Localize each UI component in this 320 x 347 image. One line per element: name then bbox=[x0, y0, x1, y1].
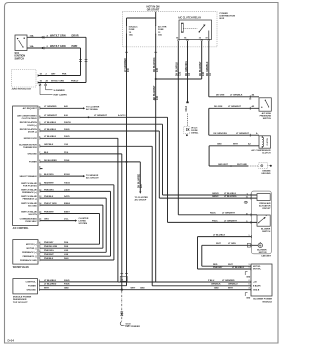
connector C113 on clutch feed bbox=[186, 102, 188, 104]
blower motor M1 bbox=[258, 242, 262, 247]
wire r7 ground bbox=[40, 154, 122, 290]
svg-text:1: 1 bbox=[249, 267, 250, 269]
svg-text:P BLU: P BLU bbox=[208, 280, 215, 282]
svg-text:LT GRN/RED: LT GRN/RED bbox=[125, 58, 127, 72]
connector on wire A bbox=[42, 36, 44, 39]
svg-text:WHT/LT GRN: WHT/LT GRN bbox=[51, 80, 64, 82]
recirc switch contacts bbox=[258, 215, 268, 223]
svg-text:SIG RTN: SIG RTN bbox=[28, 214, 37, 216]
svg-text:10A: 10A bbox=[158, 33, 162, 36]
svg-text:SWITCH VALUE: SWITCH VALUE bbox=[21, 195, 37, 198]
svg-text:5: 5 bbox=[249, 284, 250, 286]
svg-text:DK BLU/RED: DK BLU/RED bbox=[139, 173, 141, 188]
pressure switch PS1 contacts bbox=[261, 100, 269, 108]
svg-text:S-DIMMER: S-DIMMER bbox=[54, 90, 65, 92]
diode detail terminal dot bbox=[186, 134, 188, 136]
connector note C3 bbox=[244, 201, 247, 204]
svg-text:LT GRN/WHT: LT GRN/WHT bbox=[236, 133, 250, 135]
C1 pin tick bbox=[249, 235, 252, 238]
blower feed row 3 bbox=[27, 288, 70, 292]
wire label relay pin85 bbox=[186, 61, 191, 76]
svg-text:30: 30 bbox=[199, 38, 201, 40]
svg-text:CONTROL: CONTROL bbox=[26, 282, 37, 284]
svg-text:DRVR: DRVR bbox=[72, 34, 79, 37]
diode D1 symbol bbox=[186, 128, 188, 131]
svg-text:6: 6 bbox=[247, 193, 248, 195]
svg-text:RECIRCULATION: RECIRCULATION bbox=[20, 121, 38, 124]
svg-text:FEEDBACK (-): FEEDBACK (-) bbox=[23, 198, 38, 201]
control module pin row r3 label bbox=[20, 121, 72, 127]
svg-text:PNK/ORG: PNK/ORG bbox=[44, 250, 54, 252]
wire r12 loop to water valve bbox=[40, 191, 111, 256]
wire D to junction block bbox=[38, 81, 86, 84]
wire D labels bbox=[40, 80, 80, 82]
svg-text:CLUTCH: CLUTCH bbox=[262, 153, 271, 155]
wire r3 recirc+ bbox=[40, 124, 257, 195]
wire label relay pin86 bbox=[177, 62, 182, 76]
switch S1 contacts bbox=[17, 38, 25, 48]
svg-text:PNK/GRY: PNK/GRY bbox=[44, 242, 54, 244]
connector C113 label bbox=[186, 105, 188, 111]
svg-text:RED: RED bbox=[213, 264, 218, 266]
svg-text:POWER: POWER bbox=[28, 286, 36, 288]
svg-text:GROUND: GROUND bbox=[28, 154, 38, 156]
C1 wire stub into cab bbox=[0, 0, 1, 1]
recirc switch label bbox=[261, 229, 271, 234]
svg-text:B13/4: B13/4 bbox=[64, 173, 70, 176]
compressor clutch label bbox=[251, 149, 271, 155]
svg-text:THERMISTOR: THERMISTOR bbox=[23, 147, 37, 149]
svg-text:WHT: WHT bbox=[233, 144, 238, 146]
wire B vertical drop bbox=[80, 48, 82, 76]
svg-text:GND WHT: GND WHT bbox=[218, 164, 229, 166]
C1 top label bbox=[213, 235, 226, 237]
svg-text:OR START: OR START bbox=[147, 9, 160, 12]
svg-text:PWR: PWR bbox=[72, 45, 78, 48]
compressor clutch coil bbox=[262, 136, 264, 147]
svg-text:85: 85 bbox=[184, 38, 186, 40]
A/C control module label bbox=[13, 227, 30, 230]
wire r5 mode door bbox=[40, 138, 251, 282]
svg-text:GND: GND bbox=[217, 144, 222, 146]
A/C control module box bbox=[13, 106, 38, 226]
svg-text:A/C CONTROL: A/C CONTROL bbox=[13, 227, 30, 230]
svg-text:DK GRN: DK GRN bbox=[216, 95, 225, 97]
svg-text:MOTOR+: MOTOR+ bbox=[253, 269, 262, 271]
svg-text:MODE DOOR: MODE DOOR bbox=[24, 138, 38, 140]
svg-text:SWITCH: SWITCH bbox=[262, 231, 271, 233]
svg-text:SWITCH VALUE: SWITCH VALUE bbox=[21, 211, 37, 214]
svg-text:FEEDBACK GND: FEEDBACK GND bbox=[20, 259, 37, 262]
wire label F2 drop lower bbox=[154, 85, 159, 100]
svg-text:R0/2C: R0/2C bbox=[210, 213, 216, 215]
svg-text:2: 2 bbox=[249, 280, 250, 282]
connector tick compressor feed bbox=[249, 134, 251, 137]
svg-text:FUSE SELF: FUSE SELF bbox=[25, 221, 37, 223]
svg-text:LT GRN/RED: LT GRN/RED bbox=[222, 280, 235, 282]
control module pin row r13 label bbox=[21, 195, 70, 201]
blower feed connector box bbox=[13, 279, 38, 294]
wire r15 loop to water valve bbox=[40, 214, 100, 245]
svg-text:C21: C21 bbox=[180, 71, 182, 76]
svg-text:SWITCH: SWITCH bbox=[263, 118, 272, 120]
svg-text:CLUTCH: CLUTCH bbox=[267, 137, 269, 145]
wire B color label bbox=[47, 45, 66, 48]
svg-text:10A: 10A bbox=[30, 34, 34, 37]
control module pin row r14 label bbox=[21, 202, 70, 208]
wire relay pin30 drop bbox=[156, 41, 202, 79]
feed bus inside PDB bbox=[127, 12, 156, 26]
svg-text:GROUND: GROUND bbox=[261, 173, 271, 175]
grommet symbol on ground drop bbox=[120, 312, 123, 316]
svg-text:C113: C113 bbox=[186, 105, 188, 111]
svg-text:ORN/BLU: ORN/BLU bbox=[228, 284, 238, 286]
svg-text:DK GRN: DK GRN bbox=[214, 106, 223, 108]
engine ground eyelet bbox=[261, 165, 263, 167]
r8 destination note bbox=[135, 197, 149, 202]
svg-text:AIR CONDITIONING: AIR CONDITIONING bbox=[17, 114, 37, 117]
svg-text:PNK/WHT: PNK/WHT bbox=[44, 254, 54, 256]
connector box on ground verticals bbox=[120, 276, 127, 281]
splice node on F2 drop bbox=[155, 78, 157, 80]
switch wire labels bbox=[210, 213, 248, 223]
r10 destination note bbox=[86, 175, 99, 180]
blower power module label bbox=[253, 299, 272, 304]
actuator wire labels bbox=[212, 193, 237, 198]
wire C labels bbox=[40, 73, 67, 75]
svg-text:LT GRN/WHT: LT GRN/WHT bbox=[222, 213, 236, 215]
blower motor wire bbox=[0, 0, 1, 1]
svg-text:A/C SIGNAL: A/C SIGNAL bbox=[86, 108, 99, 111]
module pin numbers bbox=[249, 264, 250, 290]
svg-text:LT BLU/BLK: LT BLU/BLK bbox=[224, 193, 237, 195]
connector marks on verticals bbox=[79, 59, 87, 61]
connector tick on F2 drop bbox=[154, 51, 157, 53]
svg-text:A/C COMPRESSOR: A/C COMPRESSOR bbox=[251, 149, 271, 152]
wire loop C2 blower motor feed bbox=[202, 245, 258, 266]
module gnd stub upper bbox=[245, 272, 251, 279]
control module pin row r11 label bbox=[21, 182, 70, 188]
svg-text:4: 4 bbox=[249, 287, 250, 290]
dashed clutch feed segment bbox=[187, 114, 189, 127]
svg-text:DK BLU/WHT: DK BLU/WHT bbox=[200, 61, 202, 76]
svg-text:A/C CIRCUIT: A/C CIRCUIT bbox=[86, 177, 99, 180]
connector tick return wire bbox=[249, 107, 251, 110]
leader to splice S1 label bbox=[46, 86, 65, 92]
water valve label bbox=[13, 266, 30, 269]
svg-text:10A: 10A bbox=[30, 45, 34, 48]
compressor clutch L1 box bbox=[259, 136, 271, 148]
pressure switch PS1 box bbox=[259, 98, 271, 111]
svg-text:WATER VALVE: WATER VALVE bbox=[13, 266, 30, 269]
svg-text:DOOR (+): DOOR (+) bbox=[27, 125, 37, 127]
wire ignition feed A bbox=[27, 36, 86, 38]
svg-text:PNK/GRY: PNK/GRY bbox=[213, 267, 223, 269]
relay K1 box bbox=[179, 20, 212, 39]
hot in run label bbox=[147, 6, 160, 12]
wire r16 command bbox=[40, 220, 77, 222]
svg-text:DK BLU/WHT: DK BLU/WHT bbox=[154, 85, 156, 100]
splice on ground run bbox=[230, 165, 232, 167]
wire r2 clutch field bbox=[40, 117, 168, 222]
diode detail note bbox=[191, 127, 199, 135]
svg-text:+LB: +LB bbox=[253, 282, 257, 284]
svg-text:FOR PCM SIG: FOR PCM SIG bbox=[23, 185, 37, 187]
blower feed row 1 bbox=[26, 280, 71, 284]
ticks above connector box bbox=[120, 273, 128, 275]
svg-text:A/C GROUP: A/C GROUP bbox=[135, 198, 147, 201]
svg-text:DETAIL: DETAIL bbox=[191, 132, 199, 135]
wire return labels bbox=[214, 105, 255, 108]
svg-text:TOP OF DUCT: TOP OF DUCT bbox=[13, 302, 28, 304]
fuse F1 bbox=[126, 25, 127, 35]
module internal labels bbox=[253, 266, 262, 292]
svg-text:LEFT FENDER: LEFT FENDER bbox=[126, 326, 141, 328]
wire r13 loop to water valve bbox=[40, 198, 106, 252]
wire B circuit label bbox=[72, 45, 78, 48]
water valve row 1 bbox=[26, 241, 69, 246]
control module pin row r15 label bbox=[21, 211, 70, 217]
water valve row 2 bbox=[26, 246, 69, 250]
svg-text:WHT: WHT bbox=[131, 288, 136, 290]
svg-text:SWITCH VALUE: SWITCH VALUE bbox=[21, 202, 37, 205]
switch S1 label bbox=[15, 52, 26, 61]
svg-text:LT GRN: LT GRN bbox=[228, 243, 236, 245]
engine ground terminal box bbox=[259, 163, 268, 169]
C2 top label bbox=[216, 243, 236, 245]
svg-text:GND: GND bbox=[214, 288, 219, 290]
svg-text:MODULE POWER: MODULE POWER bbox=[13, 296, 32, 298]
control module pin row r4 label bbox=[20, 128, 71, 134]
ground drop dash-dot bbox=[121, 291, 123, 322]
wire fuse F2 drop bbox=[155, 34, 157, 282]
svg-text:GND/D: GND/D bbox=[212, 193, 219, 195]
splice ground drop bbox=[121, 289, 123, 291]
svg-text:DK GRN/ORG: DK GRN/ORG bbox=[186, 61, 188, 76]
dashed box junction block bbox=[12, 70, 37, 88]
wire r10 select enable bbox=[40, 175, 85, 177]
relay K1 label bbox=[178, 17, 202, 20]
svg-text:GND/2: GND/2 bbox=[212, 196, 219, 198]
wire r8 power bbox=[40, 161, 140, 163]
svg-text:F20/4: F20/4 bbox=[64, 159, 70, 162]
fresh air actuator box bbox=[257, 194, 270, 201]
water valve row 4 bbox=[23, 254, 69, 258]
splice on r2 bbox=[88, 116, 90, 118]
wire label relay pin30 bbox=[200, 61, 205, 76]
wire compressor ground drop bbox=[209, 146, 248, 166]
fresh air actuator label bbox=[259, 202, 271, 210]
control module pin row r8 label bbox=[29, 159, 70, 164]
svg-text:A-SC13: A-SC13 bbox=[118, 114, 126, 117]
svg-text:DK BLU/ORG: DK BLU/ORG bbox=[154, 57, 156, 72]
fuse F2 label bbox=[158, 26, 167, 37]
svg-text:MOTOR (-): MOTOR (-) bbox=[26, 248, 37, 250]
r2 mid labels bbox=[94, 114, 126, 117]
module feed labels bbox=[208, 280, 238, 290]
svg-text:LT BLU/BLK: LT BLU/BLK bbox=[213, 235, 226, 237]
splice symbol S1 on wire D bbox=[45, 83, 47, 87]
svg-text:WHT: WHT bbox=[216, 243, 221, 245]
wire ignition feed B bbox=[27, 47, 81, 49]
blower motor label bbox=[257, 249, 267, 254]
svg-text:D47/9: D47/9 bbox=[64, 195, 70, 198]
ground terminal G103 bbox=[120, 322, 130, 326]
fuse F1 label bbox=[129, 26, 138, 37]
recirc switch box bbox=[257, 215, 270, 226]
svg-text:A/C HTR: A/C HTR bbox=[158, 26, 167, 29]
svg-text:LT GRN/WHT: LT GRN/WHT bbox=[228, 106, 242, 108]
leader to splice S2 label bbox=[40, 86, 67, 96]
wire A color label bbox=[47, 34, 66, 37]
svg-text:SWITCH VALUE: SWITCH VALUE bbox=[21, 182, 37, 185]
svg-text:BLOWER POWER: BLOWER POWER bbox=[253, 299, 272, 301]
pin stub r9 bbox=[40, 168, 43, 170]
svg-text:G103: G103 bbox=[126, 323, 132, 325]
blower feed box label bbox=[13, 296, 32, 304]
wire r1 to cluster bbox=[40, 107, 85, 109]
svg-text:10: 10 bbox=[246, 197, 248, 199]
wire r2 to switch bbox=[168, 221, 258, 223]
compressor clutch rotated label bbox=[267, 137, 269, 145]
engine ground label bbox=[261, 170, 271, 175]
wire relay pin86 drop bbox=[177, 41, 179, 215]
engine ground stud dot bbox=[268, 165, 272, 167]
svg-text:15A: 15A bbox=[129, 33, 133, 36]
C2 bottom label bbox=[213, 264, 233, 266]
wire A vertical drop bbox=[85, 37, 87, 82]
ground wire labels right bbox=[131, 288, 146, 290]
wire to compressor clutch bbox=[209, 134, 259, 136]
svg-text:A/C REQUEST: A/C REQUEST bbox=[23, 107, 38, 110]
junction block label bbox=[12, 89, 32, 91]
svg-text:MOTOR: MOTOR bbox=[259, 252, 267, 254]
svg-text:FEEDBACK (-): FEEDBACK (-) bbox=[23, 255, 38, 258]
page number D-04 bbox=[8, 339, 15, 343]
svg-text:SIG GND: SIG GND bbox=[28, 206, 37, 208]
water valve row 5 bbox=[20, 257, 69, 262]
wire label F2 drop bbox=[154, 57, 159, 72]
control module pin row r16 label bbox=[20, 218, 70, 224]
control module pin row r12 label bbox=[21, 188, 70, 194]
control module pin row r2 label bbox=[17, 114, 68, 120]
svg-text:DK BLU/BLK: DK BLU/BLK bbox=[177, 62, 179, 76]
svg-text:GND: GND bbox=[140, 288, 145, 290]
wire return vertical bbox=[208, 108, 210, 135]
svg-text:3: 3 bbox=[249, 264, 250, 266]
fuse F2 bbox=[155, 25, 156, 35]
connector hook on F2 drop bbox=[154, 99, 156, 101]
svg-text:PNK/LT: PNK/LT bbox=[71, 80, 79, 82]
svg-text:INST LAMPS: INST LAMPS bbox=[54, 94, 68, 97]
water valve box bbox=[13, 240, 38, 265]
wire to pressure switch labels bbox=[216, 94, 255, 97]
svg-text:PNK/DK GRN: PNK/DK GRN bbox=[44, 246, 58, 248]
svg-text:WHT: WHT bbox=[228, 288, 233, 290]
svg-text:PASSENGER: PASSENGER bbox=[13, 298, 27, 301]
svg-text:C1: C1 bbox=[121, 279, 123, 281]
control module pin row r9 label bbox=[39, 167, 40, 170]
pressure switch PS1 label bbox=[260, 112, 272, 120]
connector on wire B bbox=[42, 47, 44, 50]
wire A circuit label bbox=[72, 34, 79, 37]
fuse label 10A (wire B) bbox=[30, 45, 34, 48]
control module pin row r6 label bbox=[19, 143, 68, 149]
cab unit rounded box bbox=[251, 191, 271, 254]
connector tick on F1 drop bbox=[125, 51, 128, 53]
switch pin ticks bbox=[250, 213, 252, 223]
C1 bottom label bbox=[213, 267, 245, 269]
wire fuse F1 drop bbox=[126, 34, 128, 162]
svg-text:COMMAND/DATA: COMMAND/DATA bbox=[20, 218, 38, 221]
relay K1 pin circles bbox=[178, 39, 210, 41]
svg-text:FEEDBACK (+): FEEDBACK (+) bbox=[22, 191, 37, 194]
connector tick pressure switch feed bbox=[249, 95, 251, 100]
svg-text:IGN-ACC: IGN-ACC bbox=[129, 26, 138, 29]
svg-text:ORN/BLK: ORN/BLK bbox=[211, 284, 221, 286]
svg-text:C3: C3 bbox=[245, 202, 247, 204]
blower power module box bbox=[251, 264, 272, 296]
wire compressor labels bbox=[214, 132, 259, 135]
svg-text:WHT: WHT bbox=[228, 264, 233, 266]
cab unit label bbox=[261, 255, 272, 258]
svg-text:GND: GND bbox=[246, 276, 251, 278]
module pin ticks bbox=[250, 265, 252, 291]
r8 drop label bbox=[139, 173, 144, 188]
svg-text:LT BLU/ORG: LT BLU/ORG bbox=[224, 196, 237, 198]
wire r11 loop to water valve bbox=[40, 185, 114, 260]
wire blower power bbox=[40, 162, 127, 286]
svg-text:MODULE: MODULE bbox=[263, 301, 273, 303]
splice symbol S2 on wire D bbox=[39, 83, 41, 87]
svg-text:E0B/4: E0B/4 bbox=[64, 202, 71, 205]
dashed lead to engine ground bbox=[248, 165, 259, 167]
svg-text:DK GRN/ORG: DK GRN/ORG bbox=[214, 133, 228, 135]
relay K1 coil bbox=[181, 23, 183, 32]
svg-text:SELECT ENABLE: SELECT ENABLE bbox=[19, 175, 37, 178]
svg-text:C2: C2 bbox=[249, 99, 251, 101]
svg-text:1: 1 bbox=[249, 235, 250, 237]
svg-text:CLUTCH FIELD: CLUTCH FIELD bbox=[22, 118, 38, 120]
svg-text:PNK/BLK: PNK/BLK bbox=[44, 258, 54, 260]
svg-text:SWITCH: SWITCH bbox=[15, 58, 25, 61]
switch S1 ignition switch box bbox=[15, 35, 27, 51]
water valve row 3 bbox=[22, 250, 69, 254]
wire label F1 drop bbox=[125, 58, 130, 72]
svg-text:T0D/4: T0D/4 bbox=[64, 182, 71, 185]
diode D1 dashed detail box bbox=[184, 127, 190, 134]
wire compressor ground labels bbox=[217, 143, 252, 146]
control module pin row r1 label bbox=[23, 105, 69, 110]
wire r6 thermistor bbox=[40, 146, 251, 285]
svg-text:JUNCTION BLOCK: JUNCTION BLOCK bbox=[12, 89, 32, 91]
wire r8 drop to cluster bbox=[139, 162, 141, 194]
actuator pin ticks bbox=[250, 194, 252, 200]
svg-text:A/C CLUTCH RELAY: A/C CLUTCH RELAY bbox=[178, 17, 202, 20]
svg-text:WHT/LT GRN: WHT/LT GRN bbox=[50, 45, 66, 48]
wire blower ground long bbox=[40, 289, 252, 291]
inline connector on C2 top bbox=[247, 243, 251, 247]
svg-text:WHT GND: WHT GND bbox=[237, 164, 247, 166]
blower feed row 2 bbox=[28, 283, 70, 288]
wire loop C1 blower switch feed bbox=[198, 237, 252, 269]
dashed power distribution box bbox=[122, 12, 217, 47]
svg-text:RECIRCULATION: RECIRCULATION bbox=[20, 128, 38, 131]
svg-text:CAB UNIT: CAB UNIT bbox=[261, 255, 272, 258]
ground G103 label bbox=[126, 323, 141, 328]
wire C to junction block bbox=[38, 74, 81, 77]
svg-text:BOX: BOX bbox=[220, 18, 225, 20]
